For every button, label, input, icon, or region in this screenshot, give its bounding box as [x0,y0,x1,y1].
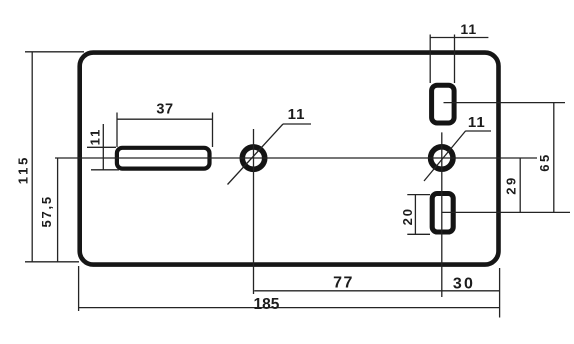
extension line top slot center [444,102,566,104]
svg-text:11: 11 [468,114,486,131]
extension line 11 top slot right [454,35,456,84]
middle hole [242,147,264,169]
dimension line 65 [553,103,555,213]
right hole [431,147,453,169]
extension line 37 left [116,113,118,148]
extension line 37 right [212,113,214,148]
dimension line 11 top [430,37,488,39]
svg-text:37: 37 [156,101,173,117]
leader line middle hole [228,124,284,185]
svg-text:11: 11 [288,106,306,123]
left slot [117,148,210,169]
center line horizontal [55,157,537,159]
plate outline [80,53,499,265]
dimension line 11 left [102,124,104,170]
svg-text:57,5: 57,5 [39,195,54,228]
top right slot [432,85,455,123]
leader shelf middle hole [283,123,311,125]
svg-text:185: 185 [253,296,279,313]
extension line bottom plate left [78,266,80,311]
dimension line 77 and 30 [254,290,499,292]
dimension line 185 [79,307,500,309]
extension line slot top [87,146,116,148]
dimension line 115 [31,52,33,262]
dimension line 57,5 [57,158,59,262]
svg-text:11: 11 [88,128,103,146]
extension line 20 top [407,194,430,196]
leader line right hole [424,131,466,181]
svg-text:77: 77 [333,274,354,291]
svg-text:20: 20 [400,207,415,225]
extension line slot bottom [91,169,119,171]
extension line 20 bottom [407,233,430,235]
dimension line 37 [117,118,213,120]
extension line bottom plate right [499,268,501,318]
extension line 11 top slot left [429,35,431,84]
svg-text:29: 29 [504,175,519,194]
svg-text:11: 11 [460,21,477,37]
extension line bottom left [25,261,79,263]
dimension line 29 [519,158,521,212]
svg-text:30: 30 [453,275,475,292]
extension line bottom slot center [442,211,570,213]
leader shelf right hole [465,130,491,132]
svg-text:65: 65 [537,152,552,171]
dimension line 20 [414,195,416,235]
center line right column vertical [441,132,443,297]
svg-text:115: 115 [15,155,30,184]
extension line top left [25,51,84,53]
bottom right slot [432,194,453,233]
center line middle hole vertical [253,129,255,294]
